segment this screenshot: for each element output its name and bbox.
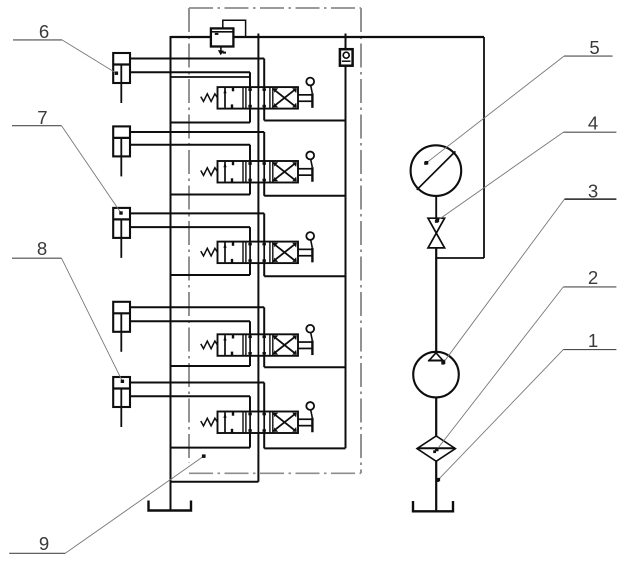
valve V5 right position (crossed flow paths)	[273, 413, 297, 432]
node: pump leader point	[441, 361, 444, 364]
wire: cylinder C1 lower port line to valve A	[130, 72, 250, 87]
wire: cylinder C1 upper port line to valve B	[130, 59, 264, 88]
svg-text:4: 4	[588, 112, 598, 133]
svg-text:1: 1	[588, 330, 598, 351]
label 1	[437, 330, 617, 482]
wire: cylinder C4 lower port line to valve A	[130, 321, 250, 334]
valve V5 left position (parallel flow paths)	[223, 412, 233, 434]
relief valve (inlet section)	[211, 28, 234, 46]
wire: section 3 return to left wall	[171, 263, 251, 275]
hydraulic pump P	[413, 352, 459, 398]
label 8	[12, 238, 124, 383]
wire: manifold left wall	[170, 36, 172, 511]
wire: gauge stem	[435, 196, 437, 218]
svg-text:3: 3	[588, 180, 598, 201]
svg-text:6: 6	[39, 21, 49, 42]
valve V4 centre position (open centre A/P/B through lines)	[250, 334, 264, 356]
valve V1 manual lever	[298, 78, 314, 108]
node: filter leader point	[433, 450, 436, 453]
valve V3 right position (crossed flow paths)	[273, 243, 297, 262]
node: valve block leader point	[202, 454, 205, 457]
valve V2 right position (crossed flow paths)	[273, 162, 297, 181]
wire: cylinder C4 upper port line to valve B	[130, 307, 264, 334]
gauge shutoff valve	[428, 218, 445, 248]
enclosure boundary top	[189, 7, 361, 9]
label 6	[13, 21, 118, 75]
enclosure boundary right	[360, 8, 362, 473]
cylinder C3	[113, 208, 130, 258]
wire: cylinder C5 lower port line to valve A	[130, 396, 250, 411]
wire: cylinder C3 lower port line to valve A	[130, 227, 250, 242]
valve V1 left position (parallel flow paths)	[223, 87, 233, 109]
valve V3 manual lever	[298, 232, 314, 262]
valve V4 left position (parallel flow paths)	[223, 334, 233, 356]
cylinder C1	[113, 53, 130, 103]
valve V5 return spring	[201, 418, 218, 426]
cylinder C2	[113, 126, 130, 176]
wire: section 4 return to right wall	[264, 356, 345, 367]
valve V2 manual lever	[298, 152, 314, 182]
wire: filter to tank	[435, 460, 437, 511]
node: shutoff valve leader point	[435, 220, 438, 223]
wire: section 3 return to right wall	[264, 263, 345, 276]
svg-text:7: 7	[37, 107, 47, 128]
enclosure boundary bottom	[189, 472, 361, 474]
svg-text:5: 5	[589, 37, 599, 58]
wire: section 2 return to left wall	[171, 183, 251, 195]
suction filter F	[417, 436, 455, 461]
valve V3 centre position (open centre A/P/B through lines)	[250, 242, 264, 264]
wire: section 1 return to right wall	[264, 109, 345, 121]
label 4	[436, 112, 617, 222]
wire: section 1 return to left wall	[171, 109, 251, 123]
wire: section 5 return to right wall	[264, 433, 345, 448]
wire: cylinder C3 upper port line to valve B	[130, 213, 264, 241]
wire: section 2 return to right wall	[264, 183, 345, 196]
wire: relief valve pilot line	[223, 20, 246, 37]
wire: pump suction pipe	[435, 397, 437, 436]
wire: block bottom	[171, 481, 259, 483]
cylinder C4	[113, 302, 130, 352]
wire: section 5 return to left wall	[171, 433, 251, 448]
valve V2 return spring	[201, 168, 218, 176]
valve V2 left position (parallel flow paths)	[223, 161, 233, 183]
valve V4 manual lever	[298, 325, 314, 355]
check valve (outlet)	[340, 49, 353, 65]
enclosure boundary left	[188, 8, 190, 463]
valve V4 return spring	[201, 341, 218, 349]
wire: pressure carry-over line P	[257, 34, 259, 482]
oil tank	[413, 501, 453, 511]
svg-text:2: 2	[588, 267, 598, 288]
wire: supply top line	[171, 36, 485, 38]
label 3	[442, 180, 617, 364]
wire: cylinder C2 lower port line to valve A	[130, 145, 250, 161]
node: suction line leader point	[436, 479, 439, 482]
label 2	[435, 267, 616, 451]
valve V2 centre position (open centre A/P/B through lines)	[250, 161, 264, 183]
directional control valve V4 body	[218, 334, 299, 356]
valve V1 right position (crossed flow paths)	[273, 88, 297, 107]
valve V5 manual lever	[298, 402, 314, 432]
wire: inlet section gallery line	[171, 76, 251, 78]
svg-text:9: 9	[39, 533, 49, 554]
valve V3 return spring	[201, 248, 218, 256]
valve V3 left position (parallel flow paths)	[223, 242, 233, 264]
valve V1 return spring	[201, 94, 218, 102]
wire: section 4 return to left wall	[171, 356, 251, 366]
wire: cylinder C2 upper port line to valve B	[130, 132, 264, 161]
relief valve drain arrow	[218, 47, 226, 56]
node: gauge leader point	[424, 162, 427, 165]
label 9	[9, 455, 205, 555]
valve V4 right position (crossed flow paths)	[273, 336, 297, 355]
wire: cylinder C5 upper port line to valve B	[130, 383, 264, 412]
valve V1 centre position (open centre A/P/B through lines)	[250, 87, 264, 109]
label 5	[425, 37, 613, 164]
wire: loop from top line down to pump discharge	[436, 37, 484, 258]
valve V5 centre position (open centre A/P/B through lines)	[250, 412, 264, 434]
wire: manifold right wall	[345, 34, 347, 449]
directional control valve V1 body	[218, 87, 299, 109]
cylinder C5	[113, 377, 130, 427]
tank under valve block	[149, 501, 192, 511]
directional control valve V2 body	[218, 161, 299, 183]
directional control valve V5 body	[218, 412, 299, 434]
directional control valve V3 body	[218, 242, 299, 264]
svg-text:8: 8	[37, 238, 47, 259]
wire: pump discharge pipe	[435, 248, 437, 353]
label 7	[12, 107, 123, 215]
pressure gauge G	[411, 145, 462, 196]
